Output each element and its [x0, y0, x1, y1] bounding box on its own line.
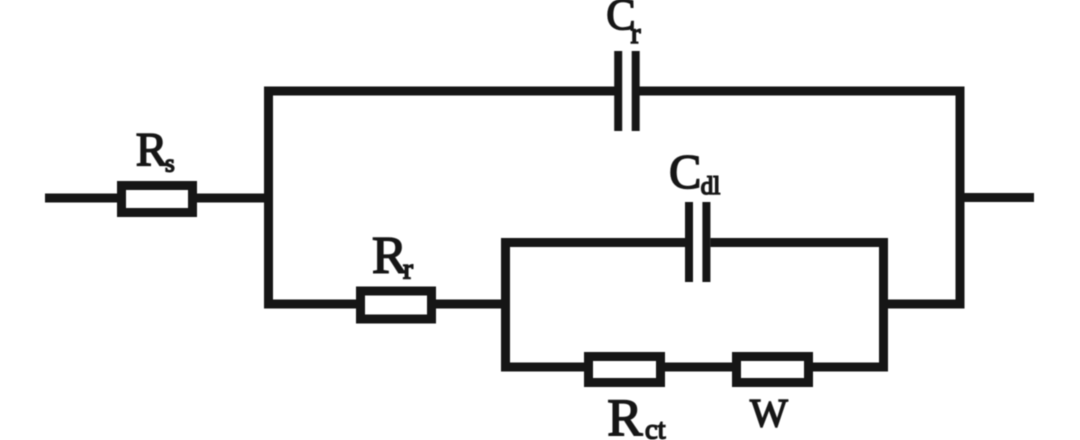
- svg-text:s: s: [165, 151, 175, 178]
- svg-text:dl: dl: [701, 173, 721, 200]
- svg-text:R: R: [607, 389, 643, 440]
- svg-text:r: r: [403, 252, 413, 285]
- svg-text:R: R: [136, 125, 168, 177]
- svg-text:ct: ct: [645, 414, 666, 440]
- svg-text:C: C: [669, 146, 701, 199]
- svg-text:W: W: [750, 390, 788, 435]
- svg-text:r: r: [631, 17, 641, 50]
